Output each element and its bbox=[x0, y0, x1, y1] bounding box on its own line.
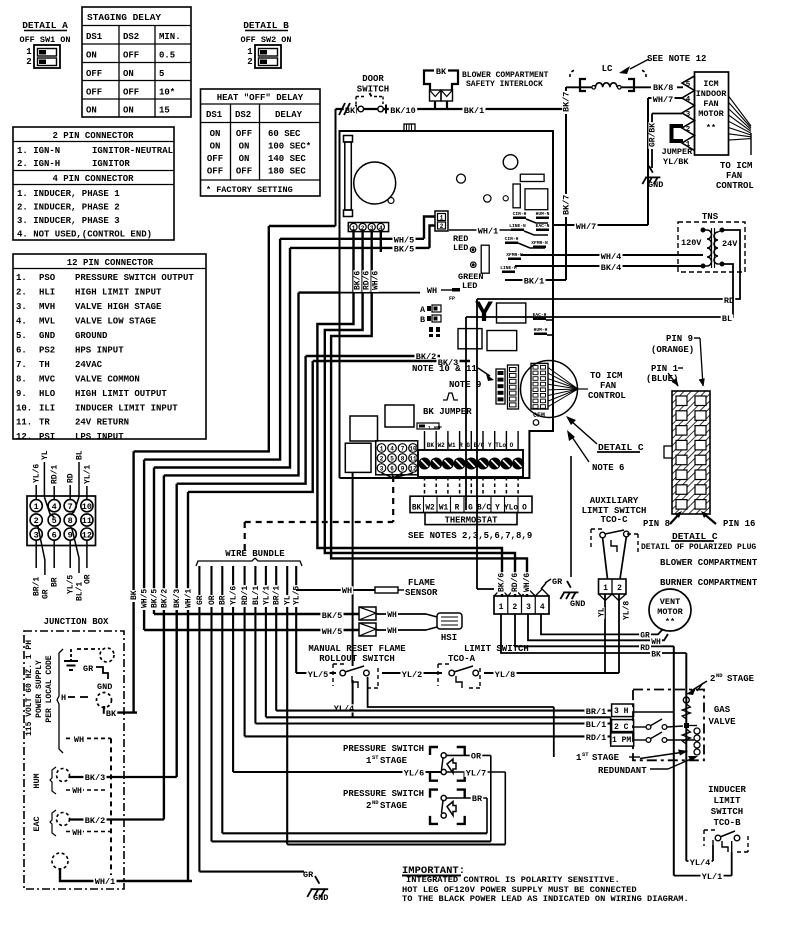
svg-text:TCO-A: TCO-A bbox=[448, 654, 476, 664]
svg-text:5: 5 bbox=[159, 69, 164, 79]
svg-text:INTEGRATED CONTROL IS POLARITY: INTEGRATED CONTROL IS POLARITY SENSITIVE… bbox=[406, 875, 620, 885]
svg-text:ND: ND bbox=[372, 799, 379, 806]
svg-text:BLOWER COMPARTMENT: BLOWER COMPARTMENT bbox=[660, 558, 758, 568]
svg-text:TO ICM: TO ICM bbox=[590, 371, 622, 381]
svg-text:10: 10 bbox=[82, 502, 92, 512]
svg-text:EAC: EAC bbox=[32, 816, 42, 831]
svg-text:24VAC: 24VAC bbox=[75, 360, 103, 370]
svg-text:YL/5: YL/5 bbox=[67, 575, 76, 594]
svg-text:LED: LED bbox=[453, 243, 468, 253]
svg-text:INDUCER LIMIT INPUT: INDUCER LIMIT INPUT bbox=[75, 403, 178, 413]
svg-text:OR: OR bbox=[83, 574, 92, 584]
svg-text:GR: GR bbox=[303, 870, 314, 880]
svg-text:8: 8 bbox=[68, 516, 73, 526]
svg-text:FAN: FAN bbox=[726, 171, 742, 181]
svg-text:FAN: FAN bbox=[703, 99, 718, 109]
svg-text:PIN 1: PIN 1 bbox=[651, 364, 679, 374]
svg-text:RD: RD bbox=[640, 644, 650, 653]
svg-text:1: 1 bbox=[247, 47, 253, 57]
svg-text:RD/1: RD/1 bbox=[586, 733, 606, 743]
svg-text:BK/10: BK/10 bbox=[390, 106, 416, 116]
svg-text:BK/6: BK/6 bbox=[497, 573, 506, 592]
svg-text:LPS INPUT: LPS INPUT bbox=[75, 432, 124, 442]
svg-text:YLo: YLo bbox=[504, 505, 518, 513]
svg-text:BK W2 W1 R G B/C Y TLo O: BK W2 W1 R G B/C Y TLo O bbox=[427, 442, 514, 449]
svg-text:WH/6: WH/6 bbox=[371, 271, 380, 290]
svg-text:TCO-C: TCO-C bbox=[600, 515, 628, 525]
svg-text:BK: BK bbox=[106, 709, 117, 719]
svg-text:LIMIT SWITCH: LIMIT SWITCH bbox=[464, 644, 529, 654]
svg-text:3: 3 bbox=[380, 466, 384, 473]
svg-text:FLAME: FLAME bbox=[408, 578, 436, 588]
svg-text:ILI: ILI bbox=[39, 403, 55, 413]
svg-text:GND: GND bbox=[313, 893, 328, 903]
svg-text:3. INDUCER, PHASE 3: 3. INDUCER, PHASE 3 bbox=[17, 216, 120, 226]
svg-text:WH/1: WH/1 bbox=[184, 589, 193, 608]
svg-text:YL/1: YL/1 bbox=[262, 586, 271, 605]
svg-text:GAS: GAS bbox=[714, 705, 731, 715]
svg-text:1.: 1. bbox=[16, 273, 27, 283]
svg-text:YL/5: YL/5 bbox=[308, 670, 328, 680]
svg-text:ICM: ICM bbox=[703, 79, 718, 89]
svg-text:MOTOR: MOTOR bbox=[698, 109, 724, 119]
svg-text:4: 4 bbox=[390, 446, 394, 453]
svg-text:HLI: HLI bbox=[39, 288, 55, 298]
svg-text:VALVE HIGH STAGE: VALVE HIGH STAGE bbox=[75, 302, 162, 312]
svg-text:OFF: OFF bbox=[123, 51, 139, 61]
svg-text:LINE-N: LINE-N bbox=[509, 223, 526, 229]
svg-text:15: 15 bbox=[159, 106, 170, 116]
svg-text:BK/2: BK/2 bbox=[160, 589, 169, 608]
svg-text:PRESSURE SWITCH OUTPUT: PRESSURE SWITCH OUTPUT bbox=[75, 273, 194, 283]
svg-text:YL: YL bbox=[41, 450, 50, 460]
svg-text:2: 2 bbox=[512, 603, 517, 612]
svg-text:2: 2 bbox=[26, 57, 31, 67]
svg-text:4: 4 bbox=[52, 502, 57, 512]
svg-text:BR: BR bbox=[472, 794, 483, 804]
svg-text:4.: 4. bbox=[16, 317, 27, 327]
svg-text:STAGE: STAGE bbox=[727, 674, 755, 684]
svg-text:GR: GR bbox=[196, 595, 205, 605]
svg-text:BR/1: BR/1 bbox=[586, 707, 606, 717]
svg-text:8.: 8. bbox=[16, 374, 27, 384]
svg-text:PER LOCAL CODE: PER LOCAL CODE bbox=[45, 655, 54, 722]
svg-text:STAGE: STAGE bbox=[380, 756, 408, 766]
svg-text:BURNER COMPARTMENT: BURNER COMPARTMENT bbox=[660, 578, 758, 588]
svg-text:WH: WH bbox=[74, 735, 84, 745]
svg-text:4: 4 bbox=[379, 225, 383, 232]
svg-text:CONTROL: CONTROL bbox=[588, 391, 626, 401]
svg-text:1: 1 bbox=[603, 584, 608, 593]
svg-text:YL: YL bbox=[597, 607, 606, 617]
svg-text:2.: 2. bbox=[16, 288, 27, 298]
svg-text:HIGH LIMIT INPUT: HIGH LIMIT INPUT bbox=[75, 288, 162, 298]
svg-text:NOTE 10 & 11: NOTE 10 & 11 bbox=[412, 364, 477, 374]
svg-text:WIRE BUNDLE: WIRE BUNDLE bbox=[225, 549, 285, 559]
svg-text:2. IGN-H: 2. IGN-H bbox=[17, 159, 60, 169]
svg-text:1 PM: 1 PM bbox=[612, 736, 631, 745]
svg-text:YL/6: YL/6 bbox=[33, 464, 42, 483]
svg-text:OFF: OFF bbox=[207, 154, 223, 164]
svg-text:GND: GND bbox=[39, 331, 56, 341]
svg-text:SEE NOTES 2,3,5,6,7,8,9: SEE NOTES 2,3,5,6,7,8,9 bbox=[408, 531, 532, 541]
svg-text:120V: 120V bbox=[681, 238, 702, 248]
svg-text:BL: BL bbox=[75, 450, 84, 460]
svg-text:BK/1: BK/1 bbox=[524, 277, 544, 287]
svg-text:GR: GR bbox=[640, 632, 650, 641]
svg-text:B: B bbox=[420, 315, 425, 325]
svg-text:BK: BK bbox=[412, 505, 422, 513]
svg-text:CIR-H: CIR-H bbox=[513, 211, 527, 217]
svg-text:7.: 7. bbox=[16, 360, 27, 370]
svg-text:OFF: OFF bbox=[123, 88, 139, 98]
svg-text:Y: Y bbox=[495, 505, 500, 513]
svg-text:2: 2 bbox=[380, 456, 384, 463]
svg-text:115 VOLT 60 HZ. 1 PH: 115 VOLT 60 HZ. 1 PH bbox=[25, 640, 34, 736]
svg-text:TR: TR bbox=[39, 418, 50, 428]
svg-text:TH: TH bbox=[39, 360, 50, 370]
svg-text:YL/8: YL/8 bbox=[622, 601, 631, 620]
svg-text:BK/7: BK/7 bbox=[562, 92, 572, 112]
svg-text:WH/7: WH/7 bbox=[653, 95, 673, 105]
svg-text:2: 2 bbox=[34, 516, 39, 526]
svg-text:TO THE BLACK POWER LEAD AS IND: TO THE BLACK POWER LEAD AS INDICATED ON … bbox=[402, 894, 689, 904]
svg-text:YL/5: YL/5 bbox=[293, 586, 302, 605]
svg-text:DS2: DS2 bbox=[235, 110, 251, 120]
svg-text:OR: OR bbox=[471, 752, 482, 762]
svg-text:MVH: MVH bbox=[39, 302, 55, 312]
svg-text:PIN 9: PIN 9 bbox=[666, 334, 693, 344]
svg-text:BK/5: BK/5 bbox=[322, 611, 342, 621]
svg-text:WH: WH bbox=[387, 627, 397, 636]
svg-text:11.: 11. bbox=[16, 418, 32, 428]
svg-text:JUMPER: JUMPER bbox=[662, 147, 694, 157]
svg-text:PS2: PS2 bbox=[39, 345, 55, 355]
svg-text:HIGH LIMIT OUTPUT: HIGH LIMIT OUTPUT bbox=[75, 389, 167, 399]
svg-text:DETAIL B: DETAIL B bbox=[243, 20, 289, 31]
svg-text:140 SEC: 140 SEC bbox=[268, 154, 306, 164]
svg-text:W2: W2 bbox=[425, 505, 435, 513]
svg-text:60 SEC: 60 SEC bbox=[268, 129, 301, 139]
svg-text:IGNITOR-NEUTRAL: IGNITOR-NEUTRAL bbox=[92, 146, 173, 156]
svg-text:4. NOT USED,(CONTROL END): 4. NOT USED,(CONTROL END) bbox=[17, 230, 152, 240]
svg-text:1: 1 bbox=[26, 47, 32, 57]
svg-text:VENT: VENT bbox=[660, 597, 680, 607]
svg-text:HUM-H: HUM-H bbox=[534, 327, 548, 333]
svg-text:1: 1 bbox=[499, 603, 504, 612]
svg-text:WH/5: WH/5 bbox=[322, 627, 342, 637]
svg-text:DS1: DS1 bbox=[206, 110, 223, 120]
svg-text:BR: BR bbox=[219, 595, 228, 605]
svg-text:7: 7 bbox=[68, 502, 73, 512]
svg-text:GR: GR bbox=[552, 577, 563, 587]
svg-text:MVL: MVL bbox=[39, 317, 55, 327]
svg-text:XFMR-N: XFMR-N bbox=[531, 240, 548, 246]
svg-text:PSO: PSO bbox=[39, 273, 56, 283]
svg-text:YL/1: YL/1 bbox=[83, 465, 92, 484]
svg-text:YL/6: YL/6 bbox=[230, 586, 239, 605]
svg-text:H: H bbox=[61, 693, 66, 703]
svg-text:BR: BR bbox=[51, 577, 60, 587]
svg-text:3: 3 bbox=[686, 111, 691, 119]
svg-text:BK/3: BK/3 bbox=[85, 773, 105, 783]
svg-text:5: 5 bbox=[390, 456, 394, 463]
svg-text:O: O bbox=[522, 505, 527, 513]
svg-text:PRESSURE SWITCH: PRESSURE SWITCH bbox=[343, 744, 424, 754]
svg-text:GR/BK: GR/BK bbox=[648, 123, 657, 147]
svg-text:REDUNDANT: REDUNDANT bbox=[598, 766, 647, 776]
svg-text:LC: LC bbox=[602, 64, 613, 74]
svg-text:3: 3 bbox=[370, 225, 374, 232]
svg-text:RD/1: RD/1 bbox=[51, 465, 60, 484]
svg-text:BK: BK bbox=[436, 67, 447, 77]
svg-text:WH/7: WH/7 bbox=[576, 222, 596, 232]
svg-text:B/C: B/C bbox=[477, 505, 491, 513]
svg-text:1. IGN-N: 1. IGN-N bbox=[17, 146, 60, 156]
svg-text:ON: ON bbox=[210, 129, 221, 139]
svg-text:2: 2 bbox=[440, 223, 444, 230]
svg-text:BK/4: BK/4 bbox=[601, 263, 621, 273]
svg-text:2: 2 bbox=[366, 801, 371, 811]
svg-text:11: 11 bbox=[82, 516, 92, 526]
svg-text:VALVE COMMON: VALVE COMMON bbox=[75, 374, 140, 384]
svg-text:BK/8: BK/8 bbox=[653, 83, 673, 93]
svg-text:ST: ST bbox=[582, 751, 589, 758]
svg-text:MOTOR: MOTOR bbox=[657, 607, 683, 617]
svg-text:BK: BK bbox=[651, 651, 661, 660]
svg-text:ON: ON bbox=[123, 69, 134, 79]
svg-text:R: R bbox=[455, 505, 460, 513]
svg-text:VALVE: VALVE bbox=[708, 717, 736, 727]
svg-text:FP: FP bbox=[449, 296, 455, 302]
svg-text:5: 5 bbox=[686, 81, 691, 89]
svg-text:WH: WH bbox=[72, 829, 82, 838]
svg-text:ST: ST bbox=[372, 754, 379, 761]
svg-text:PRESSURE SWITCH: PRESSURE SWITCH bbox=[343, 789, 424, 799]
svg-text:WH/1: WH/1 bbox=[478, 227, 498, 237]
svg-text:BK/3: BK/3 bbox=[173, 589, 182, 608]
svg-text:11: 11 bbox=[409, 456, 417, 463]
svg-text:12.: 12. bbox=[16, 432, 32, 442]
svg-text:TNS: TNS bbox=[702, 212, 719, 222]
svg-text:ON: ON bbox=[239, 154, 250, 164]
svg-text:RD: RD bbox=[67, 473, 76, 483]
svg-text:RD/6: RD/6 bbox=[511, 573, 520, 592]
svg-text:0.5: 0.5 bbox=[159, 51, 175, 61]
svg-text:HLO: HLO bbox=[39, 389, 56, 399]
svg-text:BK/5: BK/5 bbox=[394, 245, 414, 255]
svg-text:STAGE: STAGE bbox=[592, 753, 620, 763]
svg-text:SWITCH: SWITCH bbox=[357, 85, 389, 95]
svg-text:1: 1 bbox=[352, 225, 356, 232]
svg-text:ON: ON bbox=[86, 51, 97, 61]
svg-text:1 AMP: 1 AMP bbox=[428, 425, 442, 431]
svg-text:HUM-N: HUM-N bbox=[536, 211, 550, 217]
svg-text:BR/1: BR/1 bbox=[33, 577, 42, 596]
svg-text:MIN.: MIN. bbox=[159, 32, 181, 42]
svg-text:OFF: OFF bbox=[207, 167, 223, 177]
svg-text:10.: 10. bbox=[16, 403, 32, 413]
svg-text:NOTE 6: NOTE 6 bbox=[592, 463, 624, 473]
svg-text:2 PIN CONNECTOR: 2 PIN CONNECTOR bbox=[52, 131, 134, 141]
svg-text:12: 12 bbox=[409, 466, 417, 473]
svg-text:TCO-B: TCO-B bbox=[713, 818, 741, 828]
svg-text:5: 5 bbox=[52, 516, 57, 526]
svg-text:INDOOR: INDOOR bbox=[696, 89, 728, 99]
svg-text:BL/1: BL/1 bbox=[252, 586, 261, 605]
svg-text:FAN: FAN bbox=[600, 381, 616, 391]
svg-text:INDUCER: INDUCER bbox=[708, 785, 746, 795]
svg-text:BK/1: BK/1 bbox=[464, 106, 484, 116]
svg-text:GROUND: GROUND bbox=[75, 331, 108, 341]
svg-text:YL: YL bbox=[284, 595, 293, 605]
svg-text:ND: ND bbox=[716, 672, 723, 679]
svg-text:6: 6 bbox=[390, 466, 394, 473]
svg-text:7: 7 bbox=[401, 446, 405, 453]
svg-text:OR: OR bbox=[208, 595, 217, 605]
svg-text:6.: 6. bbox=[16, 345, 27, 355]
svg-text:WH: WH bbox=[651, 638, 661, 647]
svg-text:9.: 9. bbox=[16, 389, 27, 399]
svg-text:YL/2: YL/2 bbox=[402, 670, 422, 680]
svg-text:180 SEC: 180 SEC bbox=[268, 167, 306, 177]
svg-text:5.: 5. bbox=[16, 331, 27, 341]
svg-text:9: 9 bbox=[401, 466, 405, 473]
svg-text:VALVE LOW STAGE: VALVE LOW STAGE bbox=[75, 317, 157, 327]
svg-text:SWITCH: SWITCH bbox=[711, 807, 743, 817]
svg-text:JUNCTION BOX: JUNCTION BOX bbox=[44, 617, 109, 627]
svg-text:YL/6: YL/6 bbox=[404, 769, 424, 779]
svg-text:100 SEC*: 100 SEC* bbox=[268, 142, 311, 152]
svg-text:GND: GND bbox=[570, 599, 585, 609]
svg-text:YL/8: YL/8 bbox=[495, 670, 515, 680]
svg-text:OFF: OFF bbox=[236, 167, 252, 177]
svg-text:ON: ON bbox=[239, 142, 250, 152]
svg-text:8: 8 bbox=[401, 456, 405, 463]
svg-text:2: 2 bbox=[710, 674, 715, 684]
svg-text:STAGE: STAGE bbox=[380, 801, 408, 811]
svg-text:HEAT "OFF" DELAY: HEAT "OFF" DELAY bbox=[217, 93, 304, 103]
svg-text:YL/BK: YL/BK bbox=[663, 157, 689, 167]
svg-text:GR: GR bbox=[83, 664, 94, 674]
svg-text:LED: LED bbox=[462, 281, 477, 291]
svg-text:SEE NOTE 12: SEE NOTE 12 bbox=[647, 54, 706, 64]
svg-text:YL/7: YL/7 bbox=[466, 769, 486, 779]
svg-text:4 PIN CONNECTOR: 4 PIN CONNECTOR bbox=[52, 174, 134, 184]
svg-text:LINE-H: LINE-H bbox=[500, 265, 517, 271]
svg-text:2: 2 bbox=[247, 57, 252, 67]
svg-text:BK/2: BK/2 bbox=[85, 816, 105, 826]
svg-text:RD/6: RD/6 bbox=[362, 271, 371, 290]
svg-text:2 C: 2 C bbox=[614, 723, 629, 732]
svg-text:BK/7: BK/7 bbox=[562, 195, 572, 215]
svg-text:EAC-N: EAC-N bbox=[536, 223, 550, 229]
svg-text:BL/1: BL/1 bbox=[586, 720, 606, 730]
svg-text:BK: BK bbox=[130, 590, 139, 600]
svg-text:3: 3 bbox=[526, 603, 531, 612]
svg-text:CIR-H: CIR-H bbox=[505, 236, 519, 242]
svg-text:DELAY: DELAY bbox=[275, 110, 303, 120]
svg-text:WH/6: WH/6 bbox=[523, 573, 532, 592]
svg-text:GND: GND bbox=[97, 682, 112, 692]
svg-text:WH/1: WH/1 bbox=[95, 877, 115, 887]
svg-text:DS1: DS1 bbox=[86, 32, 103, 42]
svg-text:TO ICM: TO ICM bbox=[720, 161, 752, 171]
svg-text:6: 6 bbox=[52, 530, 57, 540]
svg-text:G: G bbox=[468, 505, 473, 513]
svg-text:PIN 16: PIN 16 bbox=[723, 519, 755, 529]
svg-text:YL/4: YL/4 bbox=[690, 858, 710, 868]
svg-text:DETAIL OF POLARIZED PLUG: DETAIL OF POLARIZED PLUG bbox=[641, 543, 756, 552]
svg-text:IGNITOR: IGNITOR bbox=[92, 159, 130, 169]
svg-text:1. INDUCER, PHASE 1: 1. INDUCER, PHASE 1 bbox=[17, 189, 120, 199]
svg-text:XFMR-H: XFMR-H bbox=[506, 252, 523, 258]
svg-text:LIMIT: LIMIT bbox=[713, 796, 741, 806]
svg-text:STAGING DELAY: STAGING DELAY bbox=[87, 12, 161, 23]
svg-text:PIN 8: PIN 8 bbox=[643, 519, 670, 529]
svg-text:(ORANGE): (ORANGE) bbox=[651, 345, 694, 355]
svg-text:CFM: CFM bbox=[533, 412, 545, 419]
svg-text:POWER SUPPLY: POWER SUPPLY bbox=[35, 660, 44, 718]
svg-text:24V: 24V bbox=[722, 239, 738, 249]
svg-text:3: 3 bbox=[34, 530, 39, 540]
svg-text:PSI: PSI bbox=[39, 432, 55, 442]
svg-text:ON: ON bbox=[123, 106, 134, 116]
svg-text:A: A bbox=[420, 305, 426, 315]
svg-text:1: 1 bbox=[380, 446, 384, 453]
svg-text:W1: W1 bbox=[439, 505, 449, 513]
svg-text:WH: WH bbox=[342, 586, 352, 596]
svg-text:WH: WH bbox=[387, 611, 397, 620]
svg-text:12 PIN CONNECTOR: 12 PIN CONNECTOR bbox=[67, 258, 154, 268]
svg-text:DOOR: DOOR bbox=[362, 74, 384, 84]
svg-text:MANUAL RESET FLAME: MANUAL RESET FLAME bbox=[308, 644, 406, 654]
svg-text:10*: 10* bbox=[159, 88, 175, 98]
svg-text:YL/1: YL/1 bbox=[702, 872, 722, 882]
svg-text:3.: 3. bbox=[16, 302, 27, 312]
svg-text:1: 1 bbox=[34, 502, 39, 512]
svg-text:WH: WH bbox=[427, 286, 437, 296]
svg-text:CONTROL: CONTROL bbox=[716, 181, 754, 191]
svg-text:2: 2 bbox=[361, 225, 365, 232]
svg-text:OFF: OFF bbox=[236, 129, 252, 139]
svg-text:BLOWER COMPARTMENT: BLOWER COMPARTMENT bbox=[462, 71, 549, 80]
svg-text:SENSOR: SENSOR bbox=[405, 588, 438, 598]
svg-text:**: ** bbox=[706, 123, 716, 133]
svg-text:HSI: HSI bbox=[441, 633, 457, 643]
svg-text:3 H: 3 H bbox=[614, 707, 629, 716]
svg-text:ON: ON bbox=[86, 106, 97, 116]
svg-text:2: 2 bbox=[617, 584, 622, 593]
svg-text:HUM: HUM bbox=[32, 773, 42, 788]
svg-text:BR/1: BR/1 bbox=[273, 586, 282, 605]
svg-text:4: 4 bbox=[686, 96, 691, 104]
svg-text:WH/5: WH/5 bbox=[141, 589, 150, 608]
svg-text:24V RETURN: 24V RETURN bbox=[75, 418, 129, 428]
svg-text:WH/4: WH/4 bbox=[601, 252, 621, 262]
svg-text:4: 4 bbox=[540, 603, 545, 612]
svg-text:BK JUMPER: BK JUMPER bbox=[423, 407, 472, 417]
svg-text:**: ** bbox=[665, 617, 675, 627]
svg-text:DETAIL A: DETAIL A bbox=[22, 20, 68, 31]
svg-text:2: 2 bbox=[686, 126, 691, 134]
svg-text:MVC: MVC bbox=[39, 374, 56, 384]
svg-text:GR: GR bbox=[41, 589, 50, 599]
svg-text:BK/5: BK/5 bbox=[150, 589, 159, 608]
svg-text:HPS INPUT: HPS INPUT bbox=[75, 345, 124, 355]
svg-text:OFF SW1 ON: OFF SW1 ON bbox=[19, 35, 70, 45]
svg-text:RD/1: RD/1 bbox=[241, 586, 250, 605]
